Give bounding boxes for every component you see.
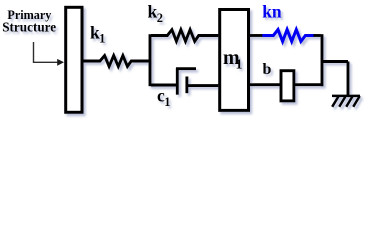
svg-text:1: 1 — [99, 32, 105, 46]
svg-text:b: b — [263, 61, 272, 78]
svg-text:1: 1 — [236, 58, 243, 73]
svg-text:2: 2 — [157, 11, 163, 25]
svg-text:1: 1 — [164, 95, 170, 109]
svg-text:Structure: Structure — [2, 20, 56, 35]
svg-text:kn: kn — [262, 2, 282, 22]
